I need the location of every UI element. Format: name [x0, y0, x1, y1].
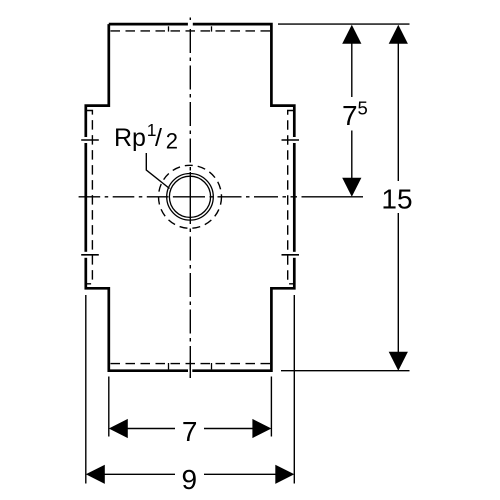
break in right edge at lower depth mark: [293, 252, 296, 258]
leader line Rp1/2: [146, 153, 169, 189]
extension line wide right: [293, 295, 295, 484]
dimension line 15 lower part: [397, 213, 399, 353]
depth mark left upper: [81, 139, 99, 141]
break in right edge at upper depth mark: [293, 137, 296, 143]
thread inner circle: [169, 176, 210, 217]
depth mark left lower: [81, 254, 99, 256]
arrow 7 left: [109, 419, 128, 438]
fitting body outline: [86, 24, 294, 371]
extension line narrow right: [270, 377, 272, 437]
thread outer circle: [167, 174, 214, 221]
bore mark bottom right: [211, 363, 213, 369]
horizontal centerline left part: [79, 196, 174, 198]
bore mark bottom left: [168, 363, 170, 369]
bore mark top right: [211, 26, 213, 31]
svg-text:Rp: Rp: [114, 124, 146, 152]
hidden contour right socket: [288, 111, 293, 284]
svg-text:15: 15: [381, 184, 412, 215]
break in left edge at upper depth mark: [84, 137, 87, 143]
svg-text:9: 9: [182, 464, 198, 495]
vertical centerline top dot: [189, 18, 191, 21]
dimension line 7 right part: [204, 428, 253, 430]
dimension line 15 upper part: [397, 43, 399, 181]
extension line circle center: [302, 196, 364, 198]
arrow 15 up: [389, 25, 408, 44]
arrow 7.5 up: [342, 25, 361, 44]
depth mark right upper: [282, 139, 300, 141]
extension line narrow left: [108, 377, 110, 437]
svg-text:/: /: [155, 124, 162, 152]
thread dashed circle: [159, 165, 222, 228]
hidden line top socket: [111, 30, 271, 32]
extension line wide left: [85, 295, 87, 484]
dimension line 7.5 lower part: [351, 131, 353, 179]
horizontal centerline right part: [205, 196, 297, 198]
extension line top: [278, 23, 410, 25]
dimension line 9 left part: [104, 473, 175, 475]
svg-text:2: 2: [166, 128, 178, 153]
arrow 15 down: [389, 352, 408, 371]
extension line bottom: [281, 370, 410, 372]
arrow 7.5 down: [342, 178, 361, 197]
svg-text:7: 7: [342, 100, 358, 131]
dimension line 9 right part: [204, 473, 276, 475]
vertical centerline lower part: [189, 224, 191, 378]
vertical centerline bottom edge crossing: [189, 362, 191, 379]
bore mark top left: [168, 26, 170, 31]
svg-text:5: 5: [358, 98, 368, 119]
dimension line 7 left part: [127, 428, 175, 430]
depth mark right lower: [282, 254, 300, 256]
arrow 9 right: [275, 465, 294, 484]
svg-text:7: 7: [182, 416, 198, 447]
horizontal centerline center dash: [174, 196, 205, 198]
vertical centerline upper part: [189, 29, 191, 172]
hidden line bottom socket: [111, 363, 271, 365]
break in left edge at lower depth mark: [84, 252, 87, 258]
vertical centerline center dash: [189, 172, 191, 224]
dimension line 7.5 upper part: [351, 43, 353, 97]
arrow 7 right: [252, 419, 271, 438]
hidden contour left socket: [87, 111, 92, 284]
arrow 9 left: [86, 465, 105, 484]
